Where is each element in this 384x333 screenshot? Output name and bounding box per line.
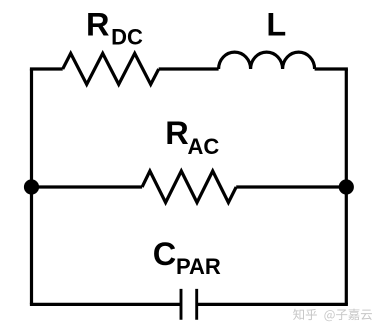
wire between R_DC and L (159, 67, 219, 70)
svg-text:PAR: PAR (176, 254, 221, 279)
node left junction (24, 179, 39, 194)
label R_AC (165, 115, 219, 159)
svg-text:R: R (86, 6, 109, 42)
wire top branch right lead (315, 67, 348, 70)
inductor L (219, 52, 315, 69)
capacitor C_PAR plates (181, 289, 197, 320)
svg-text:R: R (165, 115, 188, 151)
label R_DC (86, 6, 143, 49)
wire left rail (30, 69, 33, 304)
label C_PAR (153, 236, 221, 279)
wire bottom branch left (30, 303, 181, 306)
wire top branch left lead (30, 67, 63, 70)
svg-text:AC: AC (188, 134, 220, 159)
resistor R_AC (142, 171, 236, 203)
svg-text:C: C (153, 236, 176, 272)
watermark text 知乎 @子嘉云 (293, 309, 372, 322)
svg-text:DC: DC (111, 25, 143, 50)
wire middle branch right lead (236, 185, 346, 188)
wire bottom branch right (197, 303, 348, 306)
svg-text:L: L (266, 6, 286, 42)
wire right rail (345, 69, 348, 304)
resistor R_DC (63, 53, 159, 84)
wire middle branch left lead (32, 185, 143, 188)
node right junction (339, 179, 354, 194)
